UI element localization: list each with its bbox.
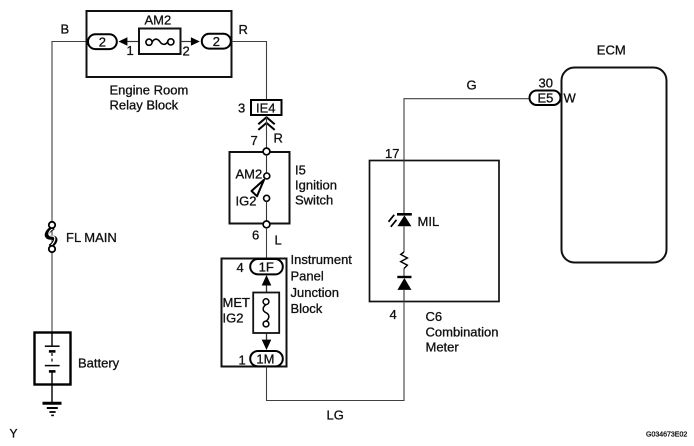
wire: battery to relay block (B net) [52, 42, 86, 332]
fuse MET IG2 [253, 293, 279, 334]
wire: IE4 to ignition switch (R net) [266, 116, 268, 149]
svg-text:L: L [275, 233, 282, 248]
svg-text:MIL: MIL [418, 214, 440, 229]
svg-text:4: 4 [237, 260, 244, 275]
label Instrument Panel Junction Block [291, 252, 353, 316]
svg-text:2: 2 [99, 34, 106, 49]
svg-text:Battery: Battery [78, 356, 120, 371]
wire: meter to ECM (G net) [404, 99, 529, 161]
ground [43, 403, 62, 415]
connector IE4 [251, 100, 282, 115]
svg-text:AM2: AM2 [145, 13, 172, 28]
connector E5 [530, 91, 561, 106]
resistor (meter) [401, 252, 408, 269]
svg-text:IG2: IG2 [223, 311, 244, 326]
svg-text:Instrument: Instrument [291, 252, 353, 267]
connector 1M [250, 351, 283, 366]
svg-text:Combination: Combination [426, 324, 499, 339]
svg-text:B: B [61, 22, 70, 37]
arrowhead to 1F [262, 275, 272, 293]
svg-text:1: 1 [127, 43, 134, 58]
connector chevrons [258, 117, 274, 130]
junction node pin 6 [263, 221, 270, 228]
pin 2 arrowhead [181, 37, 200, 46]
svg-text:G034673E02: G034673E02 [646, 432, 687, 439]
label I5 Ignition Switch [295, 163, 337, 208]
ECM box [562, 68, 667, 263]
svg-text:3: 3 [238, 100, 245, 115]
wire: junction block to combination meter (LG net) [267, 303, 405, 401]
switch wire (AM2 side) [266, 155, 268, 173]
svg-text:Panel: Panel [291, 268, 324, 283]
switch lever [252, 180, 265, 196]
wire: relay block to IE4 [232, 42, 267, 100]
svg-text:6: 6 [252, 228, 259, 243]
terminal IG2 [264, 195, 270, 201]
pin 1 arrowhead [119, 37, 140, 46]
svg-text:2: 2 [213, 34, 220, 49]
diode (meter) [397, 277, 411, 290]
svg-text:AM2: AM2 [236, 167, 263, 182]
fuse AM2 [139, 29, 181, 55]
svg-text:ECM: ECM [597, 43, 626, 58]
wire: ignition switch to junction block (L net) [266, 228, 268, 258]
svg-text:R: R [239, 22, 248, 37]
svg-text:C6: C6 [426, 309, 443, 324]
engine room relay block box [87, 11, 232, 77]
svg-text:4: 4 [390, 307, 397, 322]
svg-text:1: 1 [239, 353, 246, 368]
svg-text:MET: MET [223, 295, 251, 310]
label Engine Room Relay Block [110, 83, 189, 113]
svg-text:G: G [467, 78, 477, 93]
MIL lamp LED [389, 214, 412, 227]
svg-text:R: R [274, 131, 283, 146]
svg-text:LG: LG [327, 408, 344, 423]
svg-text:W: W [564, 91, 577, 106]
wire inside meter [403, 161, 405, 302]
battery [35, 333, 71, 385]
svg-text:1M: 1M [256, 351, 274, 366]
connector 2 (battery side) [88, 34, 117, 49]
svg-text:7: 7 [251, 133, 258, 148]
arrowhead to 1M [262, 334, 272, 351]
svg-text:I5: I5 [295, 163, 306, 178]
svg-text:Junction: Junction [291, 285, 339, 300]
label C6 Combination Meter [426, 309, 499, 354]
svg-text:FL MAIN: FL MAIN [66, 230, 117, 245]
switch wire (IG2 side) [266, 201, 268, 221]
svg-text:IG2: IG2 [236, 194, 257, 209]
junction node pin 7 [263, 148, 270, 155]
instrument panel junction block box [222, 259, 287, 367]
combination meter C6 box [370, 161, 500, 302]
wire: battery to ground [51, 385, 53, 403]
svg-text:Ignition: Ignition [295, 178, 337, 193]
svg-text:2: 2 [183, 43, 190, 58]
svg-text:Y: Y [10, 427, 18, 441]
svg-text:Block: Block [291, 301, 323, 316]
connector 2 (IE4 side) [202, 34, 231, 49]
svg-text:Meter: Meter [426, 339, 460, 354]
svg-text:1F: 1F [259, 259, 274, 274]
svg-text:Engine Room: Engine Room [110, 83, 189, 98]
svg-text:Switch: Switch [295, 193, 333, 208]
ignition switch I5 box [230, 152, 290, 224]
svg-text:E5: E5 [538, 91, 554, 106]
connector 1F [250, 259, 283, 274]
fusible link FL MAIN [47, 222, 55, 252]
svg-text:17: 17 [385, 146, 399, 161]
svg-text:30: 30 [539, 75, 553, 90]
svg-text:IE4: IE4 [256, 100, 276, 115]
svg-text:Relay Block: Relay Block [110, 98, 179, 113]
terminal AM2 [264, 173, 270, 179]
